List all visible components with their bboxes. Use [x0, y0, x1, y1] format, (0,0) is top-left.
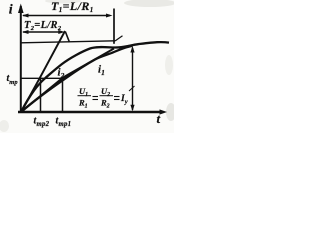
axis t (horizontal) [18, 109, 167, 114]
dropper at T1 [113, 9, 115, 44]
svg-text:t: t [157, 111, 161, 126]
leader from Iy to arrow [129, 86, 135, 91]
svg-text:tтр1: tтр1 [56, 116, 72, 129]
dropper t_tr2 [40, 78, 42, 112]
tangent line S1 (to T1) [21, 49, 114, 113]
svg-text:T2=L/R2: T2=L/R2 [24, 20, 62, 32]
measure arrow T2 [22, 30, 65, 34]
dropper at T2 [65, 32, 69, 43]
svg-text:i: i [9, 3, 13, 18]
measure arrow T1 [22, 14, 113, 18]
svg-text:tтр: tтр [7, 73, 19, 86]
stub over asymptote end [115, 36, 123, 41]
curve i1 [21, 46, 133, 112]
level line t_tr [21, 77, 65, 79]
svg-text:Iу: Iу [120, 94, 128, 106]
dropper t_tr1 [62, 78, 64, 112]
curve i2 [21, 42, 169, 112]
label U1/R1 = U2/R2 = Iy [78, 86, 135, 110]
svg-text:tтр2: tтр2 [34, 116, 50, 129]
tangent line S2 (to T2) [21, 31, 65, 112]
axis i (vertical) [18, 4, 24, 114]
svg-text:T1=L/R1: T1=L/R1 [51, 0, 94, 14]
svg-text:R1: R1 [78, 98, 88, 110]
svg-text:R2: R2 [100, 98, 110, 110]
measure arrow Iy (vertical, curve to axis) [130, 46, 134, 112]
svg-text:i1: i1 [98, 64, 105, 78]
asymptote Iy level [21, 41, 115, 43]
